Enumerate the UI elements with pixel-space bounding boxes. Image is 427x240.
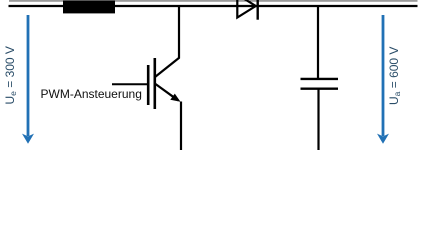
svg-text:PWM-Ansteuerung: PWM-Ansteuerung: [41, 87, 142, 101]
svg-text:Ue = 300 V: Ue = 300 V: [3, 46, 18, 104]
svg-text:Ua = 600 V: Ua = 600 V: [387, 47, 402, 105]
